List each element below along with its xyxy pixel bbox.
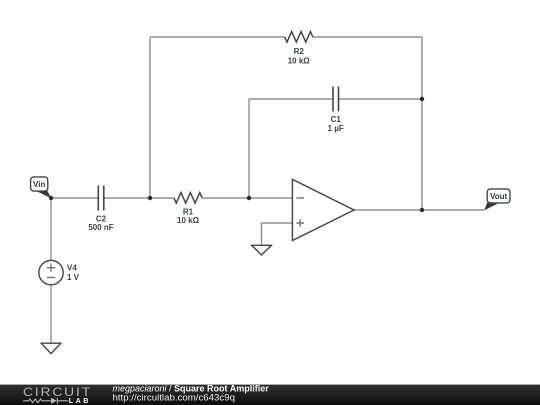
svg-text:10 kΩ: 10 kΩ <box>177 216 200 225</box>
svg-text:Vout: Vout <box>490 192 508 201</box>
junction node at Vin <box>49 196 53 200</box>
svg-text:V4: V4 <box>67 264 77 273</box>
wire C1 loop left horizontal <box>249 98 333 100</box>
junction node at C1 right <box>420 97 424 101</box>
junction node at C1 feedback tap <box>247 196 251 200</box>
wire R1 to op-amp inverting input <box>202 197 292 199</box>
wire left vertical of R2 feedback loop <box>149 37 151 198</box>
V4 minus sign <box>47 277 55 279</box>
svg-text:Vin: Vin <box>33 180 45 189</box>
CircuitLab logo resistor squiggle <box>23 399 51 403</box>
wire V4 to ground <box>50 285 52 343</box>
wire noninverting input to ground <box>261 223 263 245</box>
node flag Vout <box>484 189 510 211</box>
op-amp inverting pin minus sign <box>297 197 305 199</box>
resistor R2 <box>285 32 313 42</box>
capacitor C2 <box>98 186 104 211</box>
svg-text:LAB: LAB <box>69 396 91 405</box>
resistor R1 <box>174 193 202 204</box>
wire C1 loop right horizontal <box>339 98 423 100</box>
op-amp noninverting pin plus sign <box>297 219 305 227</box>
node flag Vin <box>31 177 52 198</box>
svg-text:C1: C1 <box>331 115 342 124</box>
svg-text:500 nF: 500 nF <box>88 223 113 232</box>
wire op-amp output to Vout <box>354 209 484 211</box>
svg-text:1 µF: 1 µF <box>328 124 344 133</box>
capacitor C1 <box>333 87 339 112</box>
svg-text:R2: R2 <box>294 47 305 56</box>
junction node at R2 feedback tap <box>148 196 152 200</box>
svg-text:1 V: 1 V <box>67 273 80 282</box>
wire Vin node down to V4 <box>50 198 52 260</box>
wire Vin to C2 <box>51 197 98 199</box>
wire C2 to R1 <box>104 197 174 199</box>
CircuitLab logo diode <box>51 398 57 404</box>
svg-text:10 kΩ: 10 kΩ <box>288 57 311 66</box>
wire right vertical feedback <box>421 37 423 210</box>
svg-text:R1: R1 <box>183 207 194 216</box>
footer black bar <box>0 385 540 405</box>
junction node at output <box>420 208 424 212</box>
wire op-amp noninverting input <box>262 222 293 224</box>
ground below V4 <box>41 343 61 353</box>
V4 plus sign <box>47 264 55 272</box>
wire C1 loop left vertical <box>248 99 250 198</box>
svg-text:http://circuitlab.com/c643c9q: http://circuitlab.com/c643c9q <box>113 393 236 403</box>
svg-text:C2: C2 <box>96 214 107 223</box>
wire top feedback left segment <box>150 36 285 38</box>
voltage source V4 <box>39 260 63 284</box>
wire top feedback right segment <box>313 36 422 38</box>
op-amp U1 <box>292 179 354 240</box>
ground at op-amp noninverting input <box>252 245 272 255</box>
